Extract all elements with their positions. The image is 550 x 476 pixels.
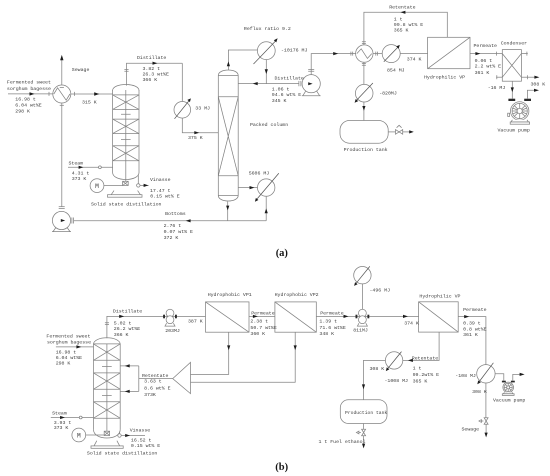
svg-text:Vacuum pump: Vacuum pump	[493, 398, 525, 404]
svg-text:374 K: 374 K	[407, 57, 422, 63]
wire pump B2 to energy -496MJ	[361, 284, 363, 309]
svg-text:0.15 wt% E: 0.15 wt% E	[150, 194, 179, 200]
wire steam inlet A	[68, 166, 113, 169]
svg-text:Vacuum pump: Vacuum pump	[498, 128, 530, 134]
svg-text:26.3 wt%E: 26.3 wt%E	[143, 72, 169, 78]
svg-text:Permeate: Permeate	[251, 311, 275, 317]
svg-text:6.04 wt%E: 6.04 wt%E	[56, 355, 82, 361]
wire steam inlet B	[51, 416, 94, 419]
svg-text:Hydrophilic VP: Hydrophilic VP	[419, 293, 460, 299]
wire distillate down to 33MJ	[182, 63, 218, 134]
svg-text:3.63 t: 3.63 t	[144, 379, 162, 385]
energy stream 33 MJ	[174, 98, 191, 118]
svg-text:298 K: 298 K	[15, 109, 30, 115]
wire permeate B to sewage drop	[458, 315, 486, 418]
svg-text:365 K: 365 K	[394, 28, 409, 34]
control valve tank A outlet	[388, 125, 414, 134]
wire reflux and distillate header	[238, 81, 301, 86]
svg-text:Sewage: Sewage	[462, 427, 480, 433]
wire branch to vacuum pump B	[495, 374, 504, 381]
svg-text:(b): (b)	[275, 462, 288, 473]
svg-text:Hydrophilic VP: Hydrophilic VP	[424, 75, 465, 81]
production tank B	[340, 400, 387, 424]
wire feed inlet A	[8, 92, 53, 96]
svg-text:Distillate: Distillate	[137, 55, 166, 61]
svg-text:Sewage: Sewage	[72, 67, 90, 73]
svg-text:16.52 t: 16.52 t	[131, 437, 152, 443]
wire funnel to column returns	[120, 364, 173, 393]
svg-text:Permeate: Permeate	[320, 311, 344, 317]
wire permeate VP1 to VP2	[249, 315, 275, 318]
svg-text:373 K: 373 K	[54, 425, 69, 431]
svg-text:-1008 MJ: -1008 MJ	[385, 378, 409, 384]
wire condenser to reflux line	[265, 60, 268, 84]
svg-text:Distillate: Distillate	[275, 76, 304, 82]
svg-text:373K: 373K	[144, 392, 156, 398]
svg-text:-16 MJ: -16 MJ	[488, 85, 506, 91]
svg-text:4.31 t: 4.31 t	[72, 170, 90, 176]
svg-text:348 K: 348 K	[319, 331, 334, 337]
svg-text:71.6 wt%E: 71.6 wt%E	[319, 325, 345, 331]
svg-text:2.2 wt% E: 2.2 wt% E	[475, 64, 501, 70]
energy stream -820MJ	[355, 83, 373, 103]
svg-text:Vinasse: Vinasse	[130, 428, 151, 434]
svg-text:26.2 wt%E: 26.2 wt%E	[114, 326, 140, 332]
wire VP1 retentate downcomer	[191, 332, 231, 374]
wire condenser vent stub	[521, 52, 527, 56]
heat exchanger HX2 economizer	[356, 45, 378, 62]
svg-text:Retentate: Retentate	[412, 356, 438, 362]
svg-text:Fermented sweet: Fermented sweet	[46, 333, 90, 339]
svg-text:-496 MJ: -496 MJ	[370, 288, 391, 294]
svg-text:Permeate: Permeate	[463, 307, 487, 313]
svg-text:373 K: 373 K	[72, 176, 87, 182]
svg-text:375 K: 375 K	[188, 135, 203, 141]
svg-text:(a): (a)	[276, 248, 289, 259]
energy stream 854 MJ	[382, 45, 400, 63]
svg-text:3.93 t: 3.93 t	[54, 420, 72, 426]
svg-text:0.39 t: 0.39 t	[463, 321, 481, 327]
svg-text:1 t: 1 t	[413, 365, 422, 371]
mixer funnel retentate B	[173, 362, 191, 393]
svg-text:Bottoms: Bottoms	[165, 211, 186, 217]
energy stream condenser -10176 MJ	[254, 38, 278, 64]
svg-text:6.04 wt%E: 6.04 wt%E	[15, 103, 41, 109]
svg-text:854 MJ: 854 MJ	[387, 67, 405, 73]
svg-text:8.6 wt% E: 8.6 wt% E	[144, 385, 170, 391]
svg-text:Reflux ratio 9.2: Reflux ratio 9.2	[244, 26, 291, 32]
svg-text:Fermented sweet: Fermented sweet	[7, 79, 51, 85]
vacuum pump B	[502, 381, 515, 396]
svg-text:-108 MJ: -108 MJ	[455, 373, 476, 379]
svg-text:1.39 t: 1.39 t	[319, 319, 337, 325]
pump P2 distillate pump	[302, 75, 321, 96]
svg-text:5606 MJ: 5606 MJ	[249, 170, 270, 176]
svg-text:298 K: 298 K	[56, 360, 71, 366]
wire C2 overhead vapor	[227, 50, 258, 70]
membrane hydrophobic VP2	[275, 302, 316, 332]
svg-text:315 K: 315 K	[82, 99, 97, 105]
svg-text:3.82 t: 3.82 t	[143, 66, 161, 72]
column C1 internals packing and trays	[113, 90, 139, 181]
svg-text:M: M	[77, 432, 81, 439]
svg-text:387 K: 387 K	[188, 319, 203, 325]
svg-text:308 K: 308 K	[472, 389, 487, 395]
pump B1 203MJ	[163, 309, 177, 326]
svg-text:5.02 t: 5.02 t	[114, 320, 132, 326]
svg-text:Solid state distillation: Solid state distillation	[91, 202, 162, 208]
membrane hydrophilic VP A	[428, 37, 470, 68]
wire condenser to vacuum pump	[511, 81, 514, 98]
wire bottoms line to packed column	[74, 219, 267, 222]
agitator gearbox C3	[104, 431, 109, 435]
wire reboiler riser	[265, 196, 268, 221]
svg-text:94.6 wt% E: 94.6 wt% E	[272, 92, 301, 98]
svg-text:sorghum bagesse: sorghum bagesse	[47, 340, 91, 346]
svg-text:Condenser: Condenser	[501, 41, 527, 47]
membrane hydrophobic VP1	[206, 302, 250, 332]
svg-text:sorghum bagesse: sorghum bagesse	[7, 86, 51, 92]
column C3 solid state distillation shell	[94, 338, 121, 438]
svg-text:Permeate: Permeate	[474, 43, 498, 49]
svg-text:Production tank: Production tank	[345, 410, 387, 416]
svg-text:366 K: 366 K	[114, 332, 129, 338]
svg-text:361 K: 361 K	[475, 70, 490, 76]
svg-text:0.06 t: 0.06 t	[475, 58, 493, 64]
membrane hydrophilic VP B	[419, 302, 459, 332]
energy stream -496 MJ	[354, 266, 371, 286]
svg-text:-820MJ: -820MJ	[379, 91, 397, 97]
wire feed inlet B	[56, 345, 94, 348]
svg-text:1 t Fuel ethanol: 1 t Fuel ethanol	[319, 439, 366, 445]
svg-text:0.07 wt% E: 0.07 wt% E	[164, 229, 193, 235]
control valve sewage B	[479, 418, 488, 425]
wire permeate A to condenser	[470, 52, 502, 56]
svg-text:-10176 MJ: -10176 MJ	[281, 48, 307, 54]
agitator gearbox C1	[123, 181, 129, 185]
heat exchanger HX1 feed preheater	[53, 85, 71, 103]
wire feed to column 315K	[71, 92, 113, 96]
wire condenser drain stub	[496, 75, 502, 79]
svg-text:Production tank: Production tank	[344, 147, 388, 153]
svg-text:Steam: Steam	[69, 160, 84, 166]
energy stream -1008 MJ	[385, 352, 402, 372]
svg-text:365 K: 365 K	[413, 378, 428, 384]
svg-text:0.8 wt%E: 0.8 wt%E	[463, 326, 487, 332]
pump B2 811MJ	[356, 309, 370, 326]
wire HX1 down to pump P1	[59, 103, 65, 208]
condenser E1 box	[502, 50, 521, 82]
wire retentate return A	[362, 11, 447, 45]
svg-text:2.76 t: 2.76 t	[164, 223, 182, 229]
svg-text:33 MJ: 33 MJ	[195, 106, 210, 112]
wire sewage out top	[60, 55, 64, 88]
svg-text:2.38 t: 2.38 t	[250, 319, 268, 325]
svg-text:99.8 wt% E: 99.8 wt% E	[394, 22, 423, 28]
svg-text:Retentate: Retentate	[142, 373, 168, 379]
packed column C2 shell	[218, 70, 238, 201]
wire vacuum pump discharge A	[527, 89, 539, 99]
svg-text:361 K: 361 K	[463, 332, 478, 338]
svg-text:Steam: Steam	[52, 411, 67, 417]
svg-text:0.15 wt% E: 0.15 wt% E	[131, 443, 160, 449]
wire C2 bottoms downcomer	[226, 202, 229, 221]
svg-text:374 K: 374 K	[404, 321, 419, 327]
svg-text:345 K: 345 K	[272, 98, 287, 104]
column C1 solid state distillation shell	[113, 85, 139, 180]
wire distillate A column top	[124, 62, 182, 86]
wire distillate B	[105, 315, 206, 339]
svg-text:Distillate: Distillate	[113, 309, 142, 315]
column C1 skirt	[108, 191, 143, 198]
svg-text:Hydrophobic VP1: Hydrophobic VP1	[208, 292, 252, 298]
column C3 skirt	[91, 441, 123, 449]
wire VP2 retentate downcomer	[191, 332, 297, 382]
svg-text:Hydrophobic VP2: Hydrophobic VP2	[275, 292, 319, 298]
production tank A	[340, 121, 388, 144]
wire permeate VP2 to pump B2	[316, 315, 418, 318]
svg-text:360 K: 360 K	[250, 331, 265, 337]
column C3 internals packing and trays	[94, 344, 121, 431]
svg-text:1.06 t: 1.06 t	[272, 86, 290, 92]
energy stream -108 MJ	[477, 363, 495, 384]
svg-text:M: M	[95, 183, 99, 190]
svg-text:50.7 wt%E: 50.7 wt%E	[250, 325, 276, 331]
wire retentate through HX2 down	[362, 62, 366, 120]
svg-text:99.2wt% E: 99.2wt% E	[413, 372, 439, 378]
svg-text:372 K: 372 K	[164, 235, 179, 241]
pump P1 bottoms pump	[52, 211, 74, 231]
packed column C2 packing X	[218, 97, 238, 176]
svg-text:16.98 t: 16.98 t	[56, 350, 77, 356]
svg-text:Retentate: Retentate	[389, 5, 415, 11]
vacuum pump A	[508, 99, 531, 125]
vinasse outlet nozzle A	[137, 175, 149, 188]
wire sewage outlet arrow B	[485, 424, 488, 437]
energy stream 5606 MJ reboiler	[238, 173, 279, 202]
control valve fuel ethanol B	[356, 424, 365, 436]
svg-text:308 K: 308 K	[531, 81, 546, 87]
svg-text:Vinasse: Vinasse	[150, 177, 171, 183]
svg-text:203MJ: 203MJ	[165, 328, 180, 334]
wire vacuum pump discharge B	[513, 373, 525, 381]
wire P2 discharge riser	[308, 52, 355, 75]
svg-text:1 t: 1 t	[394, 17, 403, 23]
wire fuel ethanol outlet arrow	[362, 436, 365, 449]
wire HX2 to membrane	[373, 53, 428, 55]
svg-text:811MJ: 811MJ	[353, 328, 368, 334]
wire condenser liquid out 308K	[521, 75, 539, 79]
svg-text:308 K: 308 K	[370, 366, 385, 372]
svg-text:Packed column: Packed column	[250, 122, 288, 128]
vinasse outlet nozzle B	[118, 432, 145, 438]
wire retentate B header	[362, 332, 439, 400]
svg-text:16.98 t: 16.98 t	[15, 97, 36, 103]
svg-text:366 K: 366 K	[143, 77, 158, 83]
svg-text:17.47 t: 17.47 t	[150, 188, 171, 194]
motor M2	[72, 428, 104, 442]
motor M1	[90, 179, 123, 193]
svg-text:Solid state distillation: Solid state distillation	[87, 451, 158, 457]
